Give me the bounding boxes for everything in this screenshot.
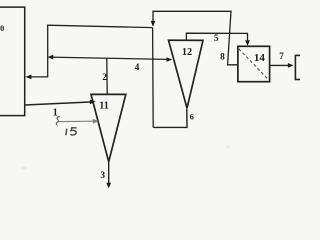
wire stream 7 from 14 to right box <box>270 64 289 66</box>
separator 14 (box with dashed diagonal) <box>238 46 270 81</box>
wire stream 1 from box 10 into cyclone 11 <box>25 102 91 105</box>
break squiggle at start of 15 <box>56 117 59 126</box>
wire stream 2 branch down into cyclone 11 <box>106 58 108 94</box>
wire stream 3 out of cyclone 11 bottom <box>108 162 110 183</box>
svg-text:3: 3 <box>100 171 105 181</box>
svg-text:1: 1 <box>53 107 58 118</box>
wire stream 15 (gray arrow into cyclone 11) <box>59 120 94 122</box>
svg-text:2: 2 <box>102 73 107 83</box>
wire recycle return into 10 (corner at 47.7,25.2 to junction 152.5,27.6) <box>30 25 153 77</box>
wire bottom loop under cyclone 12 (stream 6) <box>153 109 187 128</box>
arrowhead into box 10 <box>25 75 31 80</box>
svg-text:7: 7 <box>279 51 284 61</box>
svg-text:12: 12 <box>182 47 192 58</box>
dashed diagonal inside 14 <box>239 49 268 79</box>
wire standpipe x=152.8 from junction down to bottom loop <box>152 28 155 128</box>
arrowhead into top of 14 <box>245 40 250 46</box>
svg-text:10: 10 <box>0 24 4 33</box>
label 15 (handwritten) <box>65 129 68 136</box>
svg-text:5: 5 <box>214 34 219 44</box>
svg-text:11: 11 <box>99 100 109 111</box>
svg-text:8: 8 <box>220 53 225 63</box>
cyclone 11 (inverted triangle) <box>91 94 126 161</box>
arrowhead down into junction at (153,27) <box>151 21 156 27</box>
cyclone 12 (inverted triangle) <box>169 40 204 108</box>
svg-text:14: 14 <box>254 52 266 64</box>
wire stream 5: cyclone 12 top stub, run right, drop into 14 top <box>186 33 247 40</box>
svg-text:6: 6 <box>190 111 195 121</box>
svg-text:4: 4 <box>135 63 140 73</box>
vessel 10 (box at left edge, partially cut) <box>0 7 25 116</box>
wire overhead line (top) from down-arrow to bend above 14 <box>153 11 238 65</box>
background paper <box>0 0 300 200</box>
box at right edge (cut off) <box>295 55 313 79</box>
wire stream 4 (horizontal, arrow left into riser-return, arrow right into 12) <box>49 57 167 59</box>
faint scan smudges <box>21 167 27 170</box>
